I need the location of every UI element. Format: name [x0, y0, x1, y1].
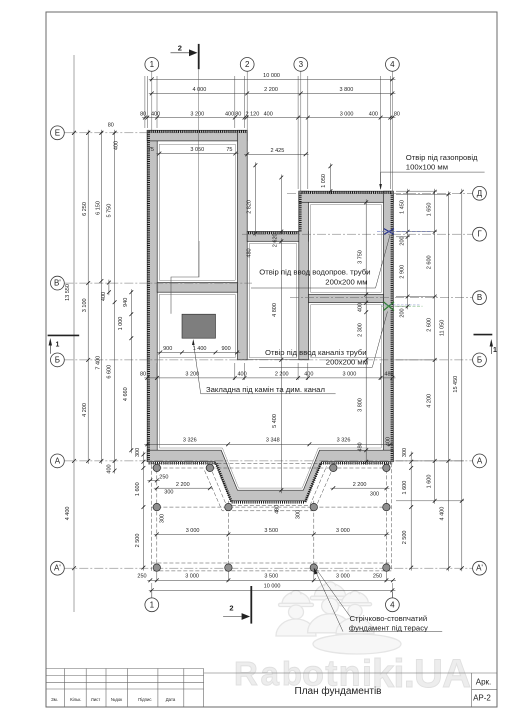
terrace dim row 3000/3500/3000 (middle) — [154, 533, 390, 535]
terrace posts (columns) — [153, 464, 390, 571]
sewer pipe opening marker (green X on right wall below V) — [384, 302, 395, 311]
svg-text:4 000: 4 000 — [193, 87, 207, 93]
svg-text:480: 480 — [274, 505, 280, 514]
svg-text:400: 400 — [357, 303, 363, 312]
svg-text:Закладна під камін та дим. кан: Закладна під камін та дим. канал — [206, 385, 325, 394]
svg-text:Лист: Лист — [91, 697, 100, 702]
svg-text:2: 2 — [229, 604, 233, 613]
svg-text:400: 400 — [386, 437, 392, 446]
wall: axis 2 vertical — [238, 130, 248, 359]
svg-text:2 600: 2 600 — [427, 255, 433, 269]
svg-text:2 500: 2 500 — [135, 534, 141, 548]
svg-text:3 000: 3 000 — [343, 372, 357, 378]
wall: left exterior (axis 1) — [147, 130, 157, 461]
svg-text:5 400: 5 400 — [272, 414, 278, 428]
svg-text:1: 1 — [493, 347, 497, 354]
right dim column B: 1650/2600/2600/4200 — [434, 189, 436, 504]
svg-text:1 600: 1 600 — [427, 475, 433, 489]
svg-text:100x100 мм: 100x100 мм — [406, 162, 448, 171]
axis circle 2 (top) — [240, 58, 254, 72]
svg-text:План фундаментів: План фундаментів — [295, 685, 382, 697]
svg-text:480: 480 — [246, 248, 252, 257]
svg-text:Зм.: Зм. — [51, 697, 58, 702]
left terrace dim column 1600/2500 — [142, 452, 144, 571]
svg-text:4 200: 4 200 — [82, 403, 88, 417]
axis circle V' (left) — [51, 276, 65, 290]
svg-text:4 660: 4 660 — [123, 387, 129, 401]
axis circle A' (left) — [51, 561, 65, 575]
svg-text:400: 400 — [238, 372, 247, 378]
section mark 2 (bottom) — [223, 586, 251, 624]
svg-text:300: 300 — [402, 448, 408, 457]
right inner dim column: 3750/400/2300/3800/480 — [365, 199, 367, 464]
svg-text:400: 400 — [107, 464, 113, 473]
axis circle 1 (bottom) — [145, 598, 159, 612]
svg-text:6 150: 6 150 — [95, 201, 101, 215]
svg-text:2 300: 2 300 — [357, 323, 363, 337]
watermark logo: three builder busts with hard hats — [276, 582, 401, 654]
insulation hatch dotted bands on exterior faces — [149, 132, 393, 503]
svg-text:2 200: 2 200 — [275, 372, 289, 378]
inner dim 2820 — [254, 162, 256, 236]
axis grid dash-dot lines — [64, 133, 473, 568]
svg-text:250: 250 — [137, 573, 146, 579]
svg-text:200x200 мм: 200x200 мм — [325, 278, 367, 287]
axis circle A (left) — [51, 454, 65, 468]
svg-text:3 000: 3 000 — [336, 573, 350, 579]
wall: row V' horizontal interior — [157, 283, 237, 293]
svg-text:3 200: 3 200 — [190, 111, 204, 117]
inner dim 2620 — [280, 175, 282, 235]
svg-text:2 900: 2 900 — [400, 265, 406, 279]
svg-text:Кільк.: Кільк. — [70, 697, 81, 702]
svg-text:1 000: 1 000 — [118, 317, 124, 331]
right extension lines — [396, 191, 464, 501]
axis circle A (right) — [473, 454, 487, 468]
svg-text:2 200: 2 200 — [176, 482, 190, 488]
gas pipe opening marker (blue X on right wall at row G) — [384, 229, 394, 235]
svg-text:200: 200 — [400, 236, 406, 245]
axis circle 3 (top) — [294, 58, 308, 72]
svg-text:6 600: 6 600 — [107, 365, 113, 379]
svg-text:Д: Д — [477, 189, 483, 198]
svg-text:400: 400 — [264, 111, 273, 117]
svg-text:1: 1 — [56, 342, 60, 349]
axis circle 4 (bottom) — [386, 598, 400, 612]
extension lines posts to bottom dim row — [157, 572, 387, 582]
terrace dim 250 (left top) — [147, 479, 159, 481]
svg-text:2 425: 2 425 — [271, 148, 285, 154]
svg-text:3 800: 3 800 — [357, 398, 363, 412]
svg-text:2: 2 — [245, 60, 250, 69]
svg-text:400: 400 — [225, 111, 234, 117]
svg-text:480: 480 — [384, 372, 393, 378]
watermark text Rabotniki.UA — [234, 652, 471, 696]
svg-text:Б: Б — [477, 355, 482, 364]
section mark 1 (left) — [48, 335, 80, 353]
right dim column A: 1450/200/2900/200 — [407, 189, 409, 309]
svg-text:80: 80 — [140, 111, 146, 117]
svg-text:3: 3 — [299, 60, 304, 69]
dim 900/1400/900 (fireplace) — [157, 351, 240, 353]
svg-text:В: В — [477, 293, 482, 302]
svg-text:1 650: 1 650 — [427, 203, 433, 217]
svg-text:4 400: 4 400 — [65, 507, 71, 521]
svg-text:1 450: 1 450 — [400, 200, 406, 214]
axis circle 1 (top) — [145, 58, 159, 72]
svg-text:3 000: 3 000 — [336, 528, 350, 534]
right terrace dim column 300/1600/2500 — [410, 452, 412, 571]
axis circle G (right) — [473, 227, 487, 241]
svg-text:2 600: 2 600 — [427, 318, 433, 332]
terrace small 300 labels — [160, 490, 379, 523]
svg-text:фундамент під терасу: фундамент під терасу — [349, 623, 428, 632]
wall: row D horizontal — [299, 191, 394, 202]
extension lines from walls up to top dim rows — [145, 76, 390, 189]
svg-text:80: 80 — [108, 123, 114, 129]
svg-text:300: 300 — [370, 492, 379, 498]
footing ledge lines (thin offsets inside rooms) — [159, 144, 381, 488]
wall: axis 3 vertical (step wall) — [299, 191, 309, 360]
svg-text:Отвір під ввод каналіз труби: Отвір під ввод каналіз труби — [265, 348, 367, 357]
svg-text:1: 1 — [150, 60, 155, 69]
svg-text:№док: №док — [111, 697, 123, 702]
note: gas pipe opening text — [406, 153, 478, 171]
svg-text:Б: Б — [55, 355, 60, 364]
svg-text:АР-2: АР-2 — [473, 694, 491, 703]
svg-text:Е: Е — [55, 128, 60, 137]
axis circle B (right) — [473, 353, 487, 367]
svg-text:3 100: 3 100 — [82, 298, 88, 312]
svg-text:300: 300 — [164, 490, 173, 496]
axis circle A' (right) — [473, 561, 487, 575]
middle inner dim column: 4800/5400 — [280, 238, 282, 493]
svg-text:А': А' — [54, 564, 61, 573]
title block table — [46, 669, 497, 708]
right dim column D: 15 450 — [461, 189, 463, 571]
svg-text:2 500: 2 500 — [402, 531, 408, 545]
left dim 400 (V' wall) — [108, 280, 110, 296]
svg-text:2 200: 2 200 — [353, 482, 367, 488]
axis circle 4 (top) — [386, 58, 400, 72]
svg-text:400: 400 — [304, 372, 313, 378]
dim row 10 000 (top) — [149, 78, 396, 80]
axis circle D (right) — [473, 186, 487, 200]
svg-text:80: 80 — [140, 372, 146, 378]
note: terrace foundation text with leaders — [315, 569, 350, 632]
svg-text:Отвір під ввод водопров. труби: Отвір під ввод водопров. труби — [259, 267, 370, 276]
svg-text:2: 2 — [178, 43, 182, 52]
axis circle V (right) — [473, 291, 487, 305]
svg-text:3 050: 3 050 — [190, 147, 204, 153]
svg-text:3 800: 3 800 — [340, 87, 354, 93]
svg-text:Отвір під газопровід: Отвір під газопровід — [406, 153, 478, 162]
svg-text:300: 300 — [135, 448, 141, 457]
svg-text:3 326: 3 326 — [337, 437, 351, 443]
svg-text:В': В' — [54, 279, 61, 288]
svg-text:80: 80 — [394, 111, 400, 117]
svg-text:Стрічково-стовпчатий: Стрічково-стовпчатий — [350, 614, 428, 623]
svg-text:75: 75 — [226, 147, 232, 153]
fireplace foundation pad — [182, 314, 216, 338]
svg-text:940: 940 — [123, 298, 129, 307]
left dim column 6150/7400 — [100, 130, 102, 464]
svg-text:5 750: 5 750 — [107, 204, 113, 218]
svg-text:200: 200 — [400, 308, 406, 317]
terrace dim row 250/3000/3500/3000/250 (bottom) — [147, 579, 396, 581]
extension lines bottom circles — [151, 592, 153, 598]
svg-text:3 348: 3 348 — [266, 437, 280, 443]
terrace outer dashed boundary — [151, 463, 391, 571]
svg-text:3 000: 3 000 — [340, 111, 354, 117]
dim 2 425 (notch) — [244, 153, 308, 155]
inner dim 1050 — [329, 163, 331, 194]
svg-text:ki.UA: ki.UA — [372, 652, 471, 696]
svg-text:4 800: 4 800 — [272, 303, 278, 317]
svg-text:10 000: 10 000 — [264, 584, 281, 590]
svg-text:3 500: 3 500 — [264, 528, 278, 534]
svg-text:А: А — [55, 456, 61, 465]
terrace dim 10 000 (bottom) — [149, 589, 396, 591]
svg-text:10 000: 10 000 — [263, 73, 280, 79]
section mark 1 (right) — [474, 335, 494, 354]
svg-text:4 200: 4 200 — [427, 394, 433, 408]
svg-text:300: 300 — [295, 510, 301, 519]
wall: bottom exterior with bay — [147, 450, 393, 501]
svg-text:11 050: 11 050 — [440, 320, 446, 336]
axis circle E (left) — [51, 126, 65, 140]
svg-text:15 450: 15 450 — [453, 376, 459, 393]
svg-text:900: 900 — [163, 346, 172, 352]
dim row 3326/3348/3326 — [144, 443, 393, 445]
svg-text:400: 400 — [369, 111, 378, 117]
left dim column 940/1000/4660 — [130, 289, 132, 453]
left dim column 13 550 / 4 400 — [73, 130, 75, 571]
terrace dim 2200 (left) — [154, 487, 213, 489]
svg-text:13 550: 13 550 — [65, 284, 71, 301]
svg-text:4: 4 — [390, 600, 395, 609]
svg-text:Дата: Дата — [166, 697, 176, 702]
svg-text:1 600: 1 600 — [135, 482, 141, 496]
svg-text:400: 400 — [151, 111, 160, 117]
title block small column labels — [51, 697, 176, 702]
note: water pipe opening text — [259, 267, 370, 286]
wall: top exterior (row E) — [147, 130, 247, 141]
svg-text:1 050: 1 050 — [321, 174, 327, 188]
svg-text:6 250: 6 250 — [82, 202, 88, 216]
dim row small top dims — [142, 117, 396, 119]
svg-text:200x200 мм: 200x200 мм — [326, 358, 368, 367]
dim row below B: 80/3200/400/2200/400/3000/480 — [147, 363, 380, 380]
svg-text:250: 250 — [373, 573, 382, 579]
svg-text:3 500: 3 500 — [264, 573, 278, 579]
svg-text:1 600: 1 600 — [402, 481, 408, 495]
svg-text:2 820: 2 820 — [247, 200, 253, 214]
svg-text:2 200: 2 200 — [264, 87, 278, 93]
svg-text:3 000: 3 000 — [185, 573, 199, 579]
svg-text:Арк.: Арк. — [476, 677, 492, 686]
svg-text:3 000: 3 000 — [186, 528, 200, 534]
section mark 2 (top) — [171, 44, 199, 69]
svg-text:1: 1 — [150, 600, 155, 609]
svg-text:75: 75 — [148, 147, 154, 153]
wall: row G horizontal — [247, 232, 308, 242]
svg-text:3 200: 3 200 — [185, 372, 199, 378]
svg-text:Підпис: Підпис — [138, 697, 152, 702]
svg-text:900: 900 — [222, 346, 231, 352]
svg-text:3 326: 3 326 — [183, 437, 197, 443]
left dim column 5750/6600 — [114, 130, 116, 474]
chimney channel jog line — [171, 241, 199, 314]
svg-text:2 120: 2 120 — [246, 111, 260, 117]
svg-text:4 400: 4 400 — [440, 507, 446, 521]
svg-text:7 400: 7 400 — [95, 356, 101, 370]
svg-text:А': А' — [476, 564, 483, 573]
svg-text:300: 300 — [160, 514, 166, 523]
wall: row V horizontal interior — [309, 295, 384, 303]
wall: right exterior (axis 4) — [384, 191, 394, 462]
svg-text:400: 400 — [101, 292, 107, 301]
left dim column 6250/3100/4200 — [87, 130, 89, 464]
dim row 4000/2200/3800 — [149, 92, 396, 94]
svg-text:А: А — [477, 456, 483, 465]
terrace dim 2200 (right) — [330, 487, 389, 489]
right dim column C: 11 050 — [447, 191, 449, 571]
svg-text:400: 400 — [114, 141, 120, 150]
svg-text:480: 480 — [357, 442, 363, 451]
note: sewer pipe opening text — [265, 348, 368, 367]
svg-text:3 750: 3 750 — [357, 250, 363, 264]
axis circle B (left) — [51, 353, 65, 367]
svg-text:80: 80 — [235, 111, 241, 117]
svg-text:Г: Г — [477, 230, 482, 239]
dim 75/3050/75 (top room ledge) — [156, 153, 238, 155]
svg-text:4: 4 — [390, 60, 395, 69]
E-row tick marks on left columns — [72, 131, 116, 135]
axis extension lines above building — [152, 71, 393, 598]
svg-text:250: 250 — [159, 474, 168, 480]
svg-text:2 620: 2 620 — [273, 233, 279, 247]
